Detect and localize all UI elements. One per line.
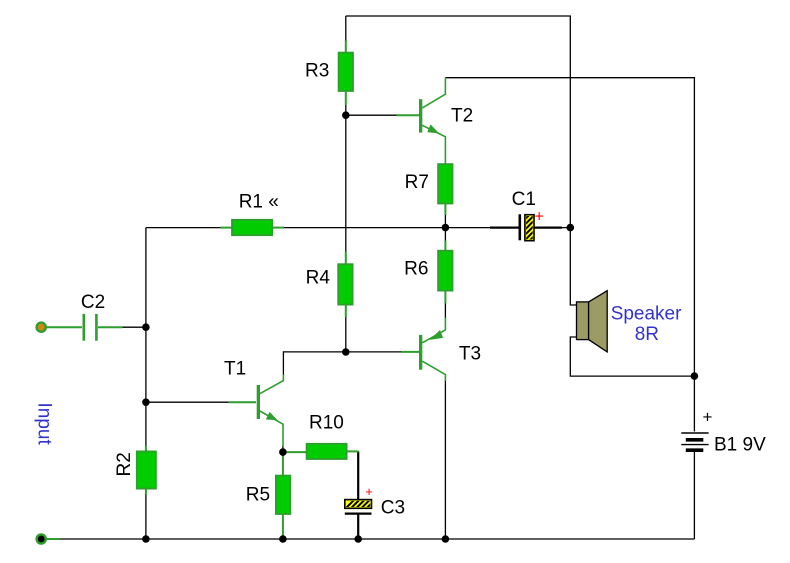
wire: top rail to R3 <box>345 16 347 41</box>
resistor R4 <box>338 264 352 304</box>
svg-text:T1: T1 <box>224 359 246 380</box>
wire: T1 emitter to node <box>282 446 284 452</box>
wire: speaker - to battery rail <box>570 337 694 376</box>
svg-text:C3: C3 <box>381 498 405 519</box>
wire: left rail to R1 <box>146 227 222 229</box>
wire: T3 collector to ground rail <box>444 380 446 539</box>
wire: R1 left lead <box>221 227 234 229</box>
wire: R10 right lead <box>346 450 359 452</box>
wire: R1 to C1 <box>283 227 520 229</box>
wire: R3 bottom lead <box>345 91 347 106</box>
wire: ground rail <box>59 538 694 540</box>
wire: C2 to left rail <box>122 326 146 328</box>
wire: C2 right lead <box>98 326 123 328</box>
wire: battery - to ground rail <box>693 452 695 539</box>
wire: R5 bottom lead <box>282 514 284 540</box>
node: speaker/battery junction <box>691 372 699 380</box>
svg-text:C1: C1 <box>512 189 536 210</box>
wire: T2 collector rail to battery + <box>445 78 694 432</box>
svg-text:+: + <box>703 408 713 427</box>
capacitor C2 <box>84 314 97 341</box>
input terminal (ground) <box>37 534 46 543</box>
node: C3/ground junction <box>354 535 362 543</box>
svg-text:R10: R10 <box>309 413 344 434</box>
wire: left vertical rail <box>145 228 147 446</box>
svg-text:R5: R5 <box>246 485 270 506</box>
wire: input terminal to C2 lead <box>46 326 82 328</box>
wire: input ground terminal lead <box>46 538 60 540</box>
wire: R6 bottom to T3 emitter <box>444 303 446 318</box>
transistor T1 <box>257 375 284 447</box>
wire: output node to speaker + <box>570 228 576 305</box>
wire: R1 right lead <box>272 227 285 229</box>
node: C2/left rail junction <box>142 323 150 331</box>
node: T1 base junction <box>142 398 150 406</box>
transistor T2 <box>419 78 445 165</box>
node: R4/T3 base junction <box>342 348 350 356</box>
wire: R4 bottom lead <box>345 304 347 317</box>
wire: R2 bottom lead <box>145 488 147 495</box>
svg-text:+: + <box>535 209 544 226</box>
svg-text:Speaker: Speaker <box>611 304 682 325</box>
node: C1 output junction <box>567 224 575 232</box>
battery B1 <box>681 433 708 450</box>
resistor R5 <box>276 476 290 514</box>
wire: R2 bottom to ground rail <box>145 494 147 539</box>
capacitor C3 <box>344 498 387 514</box>
svg-text:+: + <box>365 484 373 499</box>
capacitor C1 <box>520 203 536 247</box>
wire: T3 base lead <box>402 351 420 353</box>
svg-text:R7: R7 <box>405 172 429 193</box>
node: R2/ground junction <box>142 535 150 543</box>
wire: R4 bottom to node <box>345 317 347 352</box>
wire: C1 right lead <box>534 227 562 229</box>
wire: T1 base lead <box>229 401 257 403</box>
node: R7/R6/C1 junction <box>442 224 450 232</box>
resistor R2 <box>137 451 156 488</box>
resistor R1 <box>232 220 272 235</box>
svg-text:8R: 8R <box>635 324 659 345</box>
svg-text:R6: R6 <box>404 259 428 280</box>
svg-text:R1 «: R1 « <box>239 191 279 212</box>
wire: R7-R6 node vertical <box>444 215 446 242</box>
wire: left rail to T1 base <box>146 401 229 403</box>
wire: C3 bottom lead <box>357 515 359 540</box>
node: T1 emitter/R5/R10 junction <box>279 448 287 456</box>
wire: R10 left lead <box>283 451 307 453</box>
resistor R7 <box>438 164 452 203</box>
wire: R3 top lead <box>345 41 347 54</box>
wire: R3 top to C1-out vertical <box>346 16 571 228</box>
resistor R10 <box>307 444 347 459</box>
svg-text:R3: R3 <box>305 61 329 82</box>
wire: R2 top lead <box>145 446 147 453</box>
transistor T3 <box>419 318 445 382</box>
svg-text:B1 9V: B1 9V <box>714 435 766 456</box>
speaker LS1 8R <box>577 291 608 352</box>
wire: T2 base lead <box>397 114 420 116</box>
resistor R6 <box>438 251 452 291</box>
wire: R3 bottom to R4 top <box>345 105 347 253</box>
resistor R3 <box>339 53 353 91</box>
wire: node to T2 base <box>346 114 397 116</box>
svg-text:Input: Input <box>34 403 55 446</box>
svg-text:T2: T2 <box>451 106 473 127</box>
svg-text:T3: T3 <box>459 344 481 365</box>
wire: R7 bottom lead <box>444 203 446 215</box>
wire: R5 top lead <box>282 452 284 476</box>
svg-text:R2: R2 <box>114 452 135 476</box>
wire: C1 left lead <box>490 227 519 229</box>
wire: R4 top lead <box>345 252 347 266</box>
wire: R6 bottom lead <box>444 290 446 304</box>
svg-text:C2: C2 <box>81 292 105 313</box>
input terminal (signal) <box>37 323 46 332</box>
node: R3/T2 base junction <box>342 111 350 119</box>
wire: T1 collector to T3 base <box>283 352 402 375</box>
wire: C1 to output node <box>534 227 570 229</box>
svg-text:R4: R4 <box>306 268 331 289</box>
node: R5/ground junction <box>279 535 287 543</box>
node: T3/ground junction <box>442 535 450 543</box>
wire: R6 top lead <box>444 241 446 252</box>
wire: R10 to C3 top lead <box>357 451 359 500</box>
